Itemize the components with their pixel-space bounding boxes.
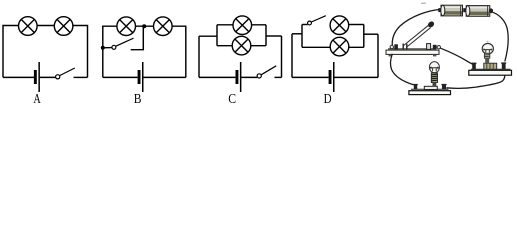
battery B4 (circuit D): long thin plate	[333, 62, 335, 92]
+ nub of cell G1	[438, 8, 441, 12]
lamp L4 (circuit B)	[154, 17, 173, 36]
faint artifact dash above wire	[421, 2, 426, 4]
lamp L3 (circuit B)	[117, 17, 136, 36]
knife switch: left screw ring	[390, 45, 393, 48]
switch S3 (circuit C): pivot circle	[257, 74, 261, 78]
wire from battery - down to right lamp right post	[493, 12, 509, 61]
terminal blob at right end of cell G2	[489, 8, 493, 13]
wire: B branch from left node to switch	[103, 47, 112, 49]
knife switch: right screw ring	[437, 46, 440, 49]
lamp L1 (circuit A)	[19, 17, 38, 36]
node dot on B left vertical	[101, 46, 105, 50]
wire: C bottom right stub after switch	[275, 76, 282, 78]
switch S1 (circuit A): open lever	[60, 68, 75, 76]
svg-text:C: C	[228, 92, 236, 107]
wire: C outer left vertical	[198, 36, 200, 77]
battery B1 (circuit A): short thick negative plate	[34, 70, 37, 84]
lamp L8 (circuit D lower)	[330, 37, 349, 56]
wire: D upper branch stub to switch	[302, 24, 308, 26]
faint dot above right bulb	[487, 41, 489, 42]
svg-text:A: A	[33, 92, 41, 107]
middle lamp stand: right binding post	[441, 84, 446, 89]
+ nub of cell G2	[463, 8, 466, 12]
right lamp stand: left binding post	[472, 63, 477, 70]
wire: B bottom right segment	[143, 76, 185, 78]
svg-text:D: D	[324, 92, 332, 107]
battery B1 (circuit A): long thin positive plate	[38, 62, 40, 92]
wire: D mid-right connector	[364, 33, 378, 35]
switch S2 (circuit B): pivot circle	[112, 45, 116, 49]
lamp L6 (circuit C lower)	[232, 36, 251, 55]
wire: A left vertical + top wire + right vertical	[3, 26, 88, 78]
wire: D outer left vertical	[291, 34, 293, 78]
switch S3 (circuit C): open lever	[261, 66, 276, 75]
lamp L5 (circuit C upper)	[233, 16, 252, 35]
wire from switch left post down to middle lamp left post	[390, 54, 413, 85]
middle lamp screw base	[431, 73, 437, 86]
right lamp screw base	[484, 53, 489, 63]
knife switch: fixed contact clip	[427, 44, 431, 50]
lamp L7 (circuit D upper)	[330, 16, 349, 35]
wire: C bottom left segment	[199, 76, 235, 78]
switch S4 (circuit D): open lever	[311, 16, 326, 22]
wire: A bottom left segment	[3, 76, 34, 78]
dry cell G1 (left)	[438, 5, 462, 16]
middle lamp stand: holder block	[424, 86, 437, 89]
right lamp bulb glass	[482, 43, 493, 54]
battery B3 (circuit C): short thick plate	[236, 70, 239, 84]
node dot on B top wire	[142, 24, 146, 28]
knife switch: base plate	[386, 49, 439, 56]
wire: D box left vertical	[301, 25, 303, 48]
right lamp stand: holder block	[484, 63, 497, 69]
wire from switch right post to right lamp left post	[441, 48, 475, 65]
battery B4 (circuit D): short thick plate	[329, 70, 332, 84]
right lamp stand: right binding post	[501, 62, 506, 69]
svg-text:B: B	[134, 92, 142, 107]
middle lamp bulb glass	[429, 62, 439, 73]
knife switch: left binding post	[394, 44, 398, 49]
middle lamp stand: base plate	[409, 89, 451, 94]
wire: C mid-left connector	[199, 35, 217, 37]
wire: D bottom right segment	[334, 76, 378, 78]
wire: D bottom left segment	[292, 76, 329, 78]
knife switch: pivot bracket	[403, 44, 407, 50]
battery B2 (circuit B): short thick plate	[138, 70, 141, 84]
lamp L2 (circuit A)	[54, 17, 73, 36]
knife switch: lever knob	[427, 20, 436, 28]
switch S2 (circuit B): open lever	[116, 38, 134, 46]
wire: C mid-right connector	[266, 35, 282, 37]
wire: D box right vertical	[363, 25, 365, 48]
battery B3 (circuit C): long thin plate	[240, 62, 242, 92]
dry cell G2 (right)	[463, 6, 493, 17]
switch S4 (circuit D): pivot circle	[308, 21, 312, 25]
right lamp bulb filament	[484, 50, 492, 53]
wire: D mid-left connector	[292, 33, 302, 35]
wire: C bottom mid segment battery to switch	[241, 76, 257, 78]
wire from battery + to switch left post	[392, 10, 439, 46]
knife switch: lever blade (open)	[404, 25, 431, 47]
wire: D upper branch lamp to box right	[349, 24, 364, 26]
wire: D outer right vertical	[377, 34, 379, 77]
switch feet	[389, 55, 392, 57]
wire from middle lamp right post to right lamp plate right end	[446, 75, 505, 88]
wire: C parallel box	[217, 25, 266, 46]
wire: C outer right vertical	[281, 36, 283, 77]
wire: A bottom mid segment battery to switch	[40, 76, 56, 78]
wire: D lower branch	[302, 46, 364, 48]
middle lamp stand: left binding post	[413, 84, 418, 89]
wire: B branch fixed-contact L from top node down	[131, 26, 144, 50]
knife switch: right binding post	[433, 45, 437, 50]
wire: B left vertical + top wire + right vertical	[103, 26, 186, 77]
battery B2 (circuit B): long thin plate	[142, 62, 144, 92]
middle lamp bulb filament	[430, 68, 438, 72]
right lamp stand: base plate	[469, 69, 512, 75]
wire: A bottom right stub after switch	[74, 76, 88, 78]
wire: B bottom left segment	[103, 76, 138, 78]
switch S1 (circuit A): pivot circle	[56, 75, 60, 79]
